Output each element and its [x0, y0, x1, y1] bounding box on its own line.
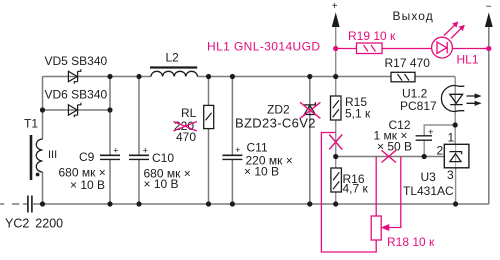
node R16 bottom [333, 201, 338, 206]
wire RL column [208, 77, 210, 205]
wire R15 bottom lead [335, 120, 337, 157]
wire VD6 branch [43, 109, 111, 111]
svg-text:470: 470 [176, 130, 196, 144]
diode VD5 [68, 71, 77, 81]
svg-text:C10: C10 [152, 151, 174, 165]
resistor R15 [331, 96, 342, 120]
resistor R16 [331, 168, 342, 192]
wire rectifier output column [109, 77, 111, 205]
node R15 bottom [333, 154, 338, 159]
zener diode ZD2 [307, 74, 312, 79]
svg-text:+: + [235, 145, 241, 156]
transformer T1 polarity dot [36, 173, 40, 177]
capacitor C9 [100, 154, 120, 156]
node ZD2 bottom [307, 201, 312, 206]
node C12/opto/U3 pin1 [453, 122, 458, 127]
wire U3 pin3 lead [455, 168, 457, 204]
resistor RL [204, 105, 214, 128]
svg-text:+: + [428, 127, 434, 138]
node L2 input [136, 74, 141, 79]
svg-text:PC817: PC817 [400, 99, 437, 113]
inductor L2 winding [151, 71, 197, 76]
svg-text:× 10 В: × 10 В [70, 178, 105, 192]
resistor R19 [336, 43, 432, 54]
svg-text:VD5 SB340: VD5 SB340 [45, 54, 108, 68]
resistor R17 [391, 72, 415, 82]
plus output terminal arrow [332, 14, 339, 27]
cross-out X on R15 lead [329, 135, 342, 150]
node LED right (magenta) [486, 46, 491, 51]
svg-text:4,7 к: 4,7 к [343, 182, 369, 196]
node T1 bottom rail [40, 201, 45, 206]
svg-text:−: − [486, 2, 492, 13]
node output column / rail [333, 74, 338, 79]
wire top rail VD5 branch [43, 76, 140, 78]
node C11 bottom [230, 201, 235, 206]
transformer T1 core [30, 135, 33, 180]
svg-text:VD6 SB340: VD6 SB340 [45, 88, 108, 102]
svg-text:C11: C11 [247, 141, 268, 155]
magenta bypass wire around R15 [321, 133, 376, 253]
wire node R15/R16 to U3 pin2 [336, 156, 445, 158]
wire optocoupler column [454, 77, 456, 145]
potentiometer R18 [371, 216, 381, 240]
wire C11 column [231, 77, 233, 205]
svg-text:T1: T1 [24, 117, 38, 131]
magenta wire R18 top to net [375, 157, 377, 217]
capacitor C12 [416, 135, 432, 137]
svg-text:YC2 2200: YC2 2200 [5, 217, 63, 231]
svg-text:R18 10 к: R18 10 к [387, 235, 435, 249]
inductor L2 core bar [150, 66, 197, 68]
IC U3 TL431 box [444, 144, 469, 168]
capacitor YC2 [28, 196, 32, 213]
svg-text:× 10 В: × 10 В [244, 165, 279, 179]
svg-text:× 10 В: × 10 В [144, 177, 179, 191]
capacitor C10 [129, 154, 149, 156]
svg-text:+: + [143, 146, 149, 157]
optocoupler U1.2 LED [441, 86, 480, 112]
node R19 junction (magenta) [333, 46, 338, 51]
minus output terminal arrow [485, 14, 492, 27]
wire R16 leads [335, 157, 337, 205]
wire left column T1 [42, 77, 44, 205]
svg-text:2: 2 [437, 144, 444, 158]
wire rail L2 to R17 [198, 76, 392, 78]
svg-text:BZD23-C6V2: BZD23-C6V2 [235, 116, 316, 131]
node C9 bottom [107, 201, 112, 206]
node U3 pin3 bottom [453, 201, 458, 206]
wire bottom rail [33, 203, 489, 205]
svg-text:5,1 к: 5,1 к [345, 107, 371, 121]
wire R17 to optocoupler [415, 76, 455, 78]
cross-out X on wire to U3 [382, 150, 397, 162]
wire ZD2 column [309, 77, 311, 205]
svg-text:TL431AC: TL431AC [403, 184, 454, 198]
node VD6 anode left column [40, 107, 45, 112]
cross-out X over 220 [173, 122, 197, 132]
wire rail to L2 [139, 76, 151, 78]
svg-text:Выход: Выход [393, 9, 434, 23]
capacitor C11 [222, 154, 242, 156]
svg-text:1: 1 [448, 131, 455, 145]
wire C10 column [138, 77, 140, 205]
svg-text:III: III [48, 149, 57, 161]
svg-text:U3: U3 [421, 170, 437, 184]
wire dashed mains lead [0, 203, 27, 205]
U3 internal pin line [455, 145, 457, 167]
diode VD6 [68, 105, 77, 115]
node RL top [206, 74, 211, 79]
svg-text:HL1: HL1 [457, 53, 479, 67]
U3 internal symbol [449, 152, 461, 162]
R18 wiper arrow [388, 157, 401, 228]
node RL bottom [206, 201, 211, 206]
svg-text:ZD2: ZD2 [267, 103, 290, 117]
svg-text:L2: L2 [166, 51, 180, 65]
wire C12 bottom lead [423, 140, 425, 157]
svg-text:+: + [332, 1, 338, 12]
node VD6 output [107, 107, 112, 112]
svg-text:C9: C9 [79, 150, 95, 164]
svg-text:R19 10 к: R19 10 к [348, 29, 396, 43]
wire right output column [488, 27, 490, 204]
wire C12 top lead [424, 125, 455, 136]
svg-text:3: 3 [447, 168, 454, 182]
svg-text:× 50 В: × 50 В [377, 140, 412, 154]
cross-out X over ZD2 [300, 102, 320, 118]
svg-text:HL1 GNL-3014UGD: HL1 GNL-3014UGD [207, 40, 320, 54]
node VD5 output [107, 74, 112, 79]
node C10 bottom [136, 201, 141, 206]
wire plus output column [335, 27, 337, 96]
LED HL1 [432, 22, 489, 58]
node C11 top [230, 74, 235, 79]
svg-text:+: + [113, 146, 119, 157]
svg-text:R17 470: R17 470 [385, 56, 431, 70]
transformer T1 winding III [36, 139, 42, 172]
node C12 bottom [422, 154, 427, 159]
